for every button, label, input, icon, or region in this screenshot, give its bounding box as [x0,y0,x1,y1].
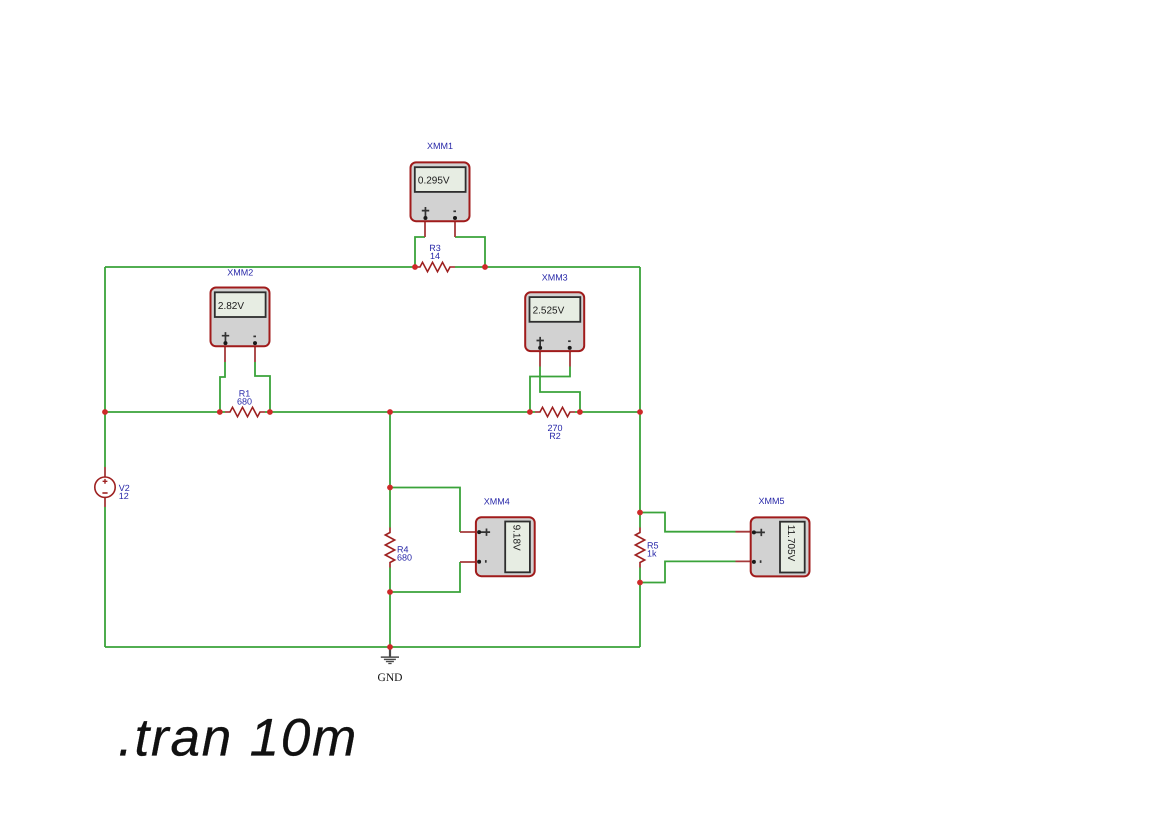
wire XMM1 minus lead [455,237,485,267]
label R1 value [237,389,252,407]
voltage source V2 [95,477,115,497]
multimeter XMM3 [525,292,584,351]
node junction R4 bottom [387,589,393,595]
node junction R3 left [412,264,418,270]
resistor R2 [535,407,575,416]
node junction R2 right [577,409,583,415]
wire middle rail R1 to R2 [265,411,535,413]
label XMM4 [484,497,510,507]
label XMM3 [542,272,568,282]
wire XMM3 minus lead [530,367,570,413]
label R5 value [647,540,659,558]
wire XMM5 plus lead [640,513,736,532]
svg-text:2.82V: 2.82V [218,301,244,312]
svg-text:680: 680 [397,552,412,562]
wire XMM2 plus lead [220,362,225,412]
svg-text:9.18V: 9.18V [510,525,521,551]
label V2 value [119,483,130,501]
wire XMM4 plus lead [390,488,460,533]
wire XMM1 pin + red [424,217,426,237]
node junction R5 bottom [637,580,643,586]
svg-text:XMM2: XMM2 [227,267,253,277]
node junction right rail / middle rail [637,409,643,415]
multimeter XMM2 [211,288,270,347]
node junction left rail / middle rail [102,409,108,415]
svg-text:XMM4: XMM4 [484,497,510,507]
wire XMM3 pin - red [569,347,571,366]
svg-text:.tran 10m: .tran 10m [118,709,358,768]
svg-text:GND: GND [378,672,403,684]
label XMM2 [227,267,253,277]
wire V2 pin bottom red [104,498,106,508]
node junction ground [387,644,393,650]
wire XMM5 pin + red [736,531,755,533]
label XMM1 [427,141,453,151]
wire XMM1 plus lead [415,237,425,267]
wire XMM4 pin + red [460,531,480,533]
wire middle rail left of R1 [105,411,225,413]
wire top rail left of R3 [105,266,415,268]
wire XMM5 pin - red [736,560,755,562]
node junction middle rail / center branch [387,409,393,415]
svg-text:R2: R2 [549,431,561,441]
resistor R1 [225,407,265,416]
resistor R4 [385,528,394,568]
wire bottom rail [105,646,640,648]
node junction R4 top [387,485,393,491]
wire XMM1 pin - red [454,217,456,237]
node junction R5 top [637,510,643,516]
node junction R3 right [482,264,488,270]
wire middle rail right of R2 [575,411,640,413]
wire XMM4 minus lead [390,562,460,592]
label R3 value [429,243,441,261]
wire XMM3 pin + red [539,347,541,366]
svg-text:XMM1: XMM1 [427,141,453,151]
wire XMM4 pin - red [460,561,480,563]
ground [381,649,399,664]
wire XMM3 plus lead [540,367,580,413]
node junction R2 left [527,409,533,415]
svg-text:XMM3: XMM3 [542,272,568,282]
wire left rail lower [104,507,106,647]
label R2 value [547,423,562,441]
wire XMM5 minus lead [640,561,736,582]
svg-text:0.295V: 0.295V [418,176,450,187]
svg-text:2.525V: 2.525V [533,306,565,317]
node junction R1 left [217,409,223,415]
node junction R1 right [267,409,273,415]
label R4 value [397,544,412,562]
svg-text:12: 12 [119,491,129,501]
svg-text:11.705V: 11.705V [785,525,796,562]
svg-text:1k: 1k [647,548,657,558]
multimeter XMM4 [476,517,535,576]
wire top rail right of R3 [455,266,640,268]
wire right rail lower [639,568,641,648]
wire XMM2 pin - red [254,342,256,362]
wire center branch lower [389,568,391,648]
wire XMM2 pin + red [224,342,226,362]
resistor R5 [635,528,644,568]
wire V2 pin top red [104,467,106,477]
label XMM5 [758,496,784,506]
wire center branch upper [389,412,391,528]
wire XMM2 minus lead [255,362,270,412]
wire left rail upper [104,267,106,467]
svg-text:14: 14 [430,251,440,261]
wire right rail upper [639,267,641,528]
resistor R3 [415,262,455,271]
multimeter XMM5 [751,517,810,576]
multimeter XMM1 [411,162,470,221]
svg-text:XMM5: XMM5 [758,496,784,506]
svg-text:680: 680 [237,397,252,407]
